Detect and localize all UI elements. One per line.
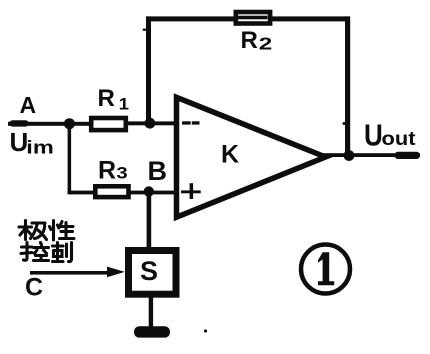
resistor R2 inner mark — [238, 16, 268, 20]
wire feedback right vertical — [345, 16, 350, 157]
figure number 1 — [318, 252, 334, 285]
wire B down to switch — [147, 194, 152, 248]
output arrow — [395, 152, 421, 159]
wire tick — [143, 29, 146, 31]
input arrow — [10, 120, 29, 126]
svg-text:U: U — [364, 118, 383, 153]
node output — [344, 150, 355, 161]
node inverting input — [145, 118, 156, 129]
figure number 1 circle — [301, 245, 350, 294]
wire R1 to op-amp inverting input — [126, 121, 178, 125]
wire feedback left vertical — [146, 16, 151, 123]
svg-text:R: R — [98, 156, 116, 184]
wire to R3 — [68, 191, 94, 195]
resistor R2 — [236, 12, 270, 24]
wire feedback top horizontal — [146, 16, 350, 21]
arrow into switch — [107, 267, 125, 278]
node B — [144, 186, 154, 196]
svg-text:A: A — [20, 92, 37, 118]
resistor R1 — [91, 118, 126, 130]
speck — [343, 122, 346, 125]
wire C control — [30, 271, 108, 275]
label 极性 (polarity) — [19, 221, 74, 241]
svg-text:3: 3 — [116, 163, 127, 182]
svg-text:2: 2 — [259, 33, 273, 53]
label 控制 (control) — [21, 243, 72, 262]
switch S box — [129, 251, 177, 295]
svg-text:C: C — [25, 274, 43, 302]
op-amp K body — [177, 97, 326, 217]
op-amp plus sign — [181, 183, 201, 199]
wire switch to ground — [149, 294, 153, 327]
op-amp minus sign — [182, 121, 200, 124]
svg-text:S: S — [140, 256, 158, 286]
ground — [134, 326, 170, 337]
svg-text:out: out — [382, 129, 417, 150]
node A junction — [64, 118, 75, 129]
wire output — [322, 153, 420, 157]
svg-text:R: R — [98, 85, 115, 112]
speck — [204, 329, 207, 332]
svg-text:R: R — [241, 27, 258, 54]
wire node A down vertical — [68, 126, 72, 194]
svg-text:B: B — [148, 156, 168, 186]
svg-text:K: K — [221, 141, 239, 169]
svg-text:1: 1 — [119, 94, 129, 113]
wire R3 to op-amp non-inverting input — [130, 191, 178, 195]
wire input A segment — [8, 122, 89, 126]
resistor R3 — [95, 186, 128, 197]
